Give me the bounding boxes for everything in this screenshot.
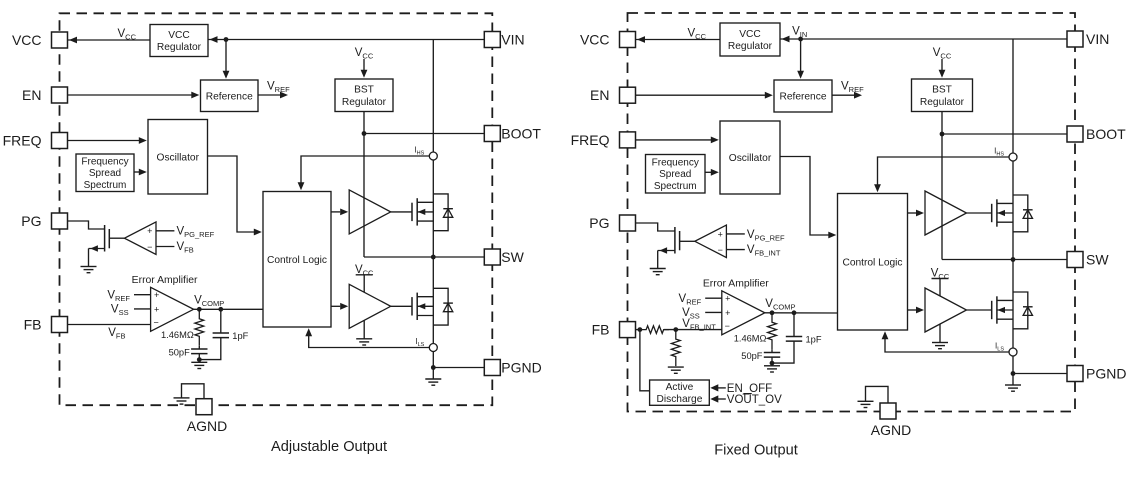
- svg-text:Spread: Spread: [659, 169, 691, 180]
- svg-text:+: +: [147, 226, 152, 236]
- wire FB junction down to Active Discharge: [640, 330, 650, 391]
- wire ILS sense into Control Logic bottom: [885, 339, 1009, 352]
- pin PGND: [1067, 366, 1083, 382]
- PG MOSFET channel bar: [104, 225, 106, 252]
- wire EN pin to Reference: [636, 94, 766, 96]
- transistor high-side MOSFET body connection with arrow: [417, 211, 433, 213]
- svg-text:1.46MΩ: 1.46MΩ: [161, 330, 194, 340]
- wire Frequency Spread Spectrum into Oscillator: [134, 171, 139, 173]
- svg-text:Oscillator: Oscillator: [157, 152, 200, 163]
- transistor low-side MOSFET channel bar: [416, 293, 418, 320]
- wire PGND node to power ground: [1012, 374, 1014, 386]
- wire ILS sense into Control Logic bottom: [309, 336, 429, 348]
- pin PG: [620, 215, 636, 231]
- svg-text:Discharge: Discharge: [657, 394, 703, 405]
- svg-text:PGND: PGND: [1086, 366, 1126, 382]
- wire divider midpoint to error amplifier inverting input: [664, 329, 722, 331]
- ground below PG MOSFET: [81, 266, 97, 268]
- wire low-side MOSFET source down to PGND node: [1012, 260, 1014, 374]
- IC boundary dashed border: [60, 13, 493, 405]
- IC boundary dashed border: [628, 13, 1076, 412]
- svg-text:PG: PG: [21, 213, 41, 229]
- svg-text:VCC: VCC: [580, 32, 610, 48]
- PG MOSFET source stub with arrow: [89, 248, 105, 250]
- transistor high-side MOSFET drain stub: [997, 202, 1013, 204]
- low-side gate driver: [349, 284, 391, 328]
- current sense IHS tap circle: [429, 152, 437, 160]
- junction node VIN branch to Reference: [798, 37, 803, 42]
- transistor low-side MOSFET source stub: [417, 315, 433, 317]
- svg-text:Error Amplifier: Error Amplifier: [132, 275, 198, 286]
- pin FREQ: [620, 132, 636, 148]
- pin SW: [484, 249, 500, 265]
- pin EN: [52, 87, 68, 103]
- pin EN: [620, 87, 636, 103]
- error amplifier VSS input wire: [705, 311, 722, 313]
- capacitor 1pF branch: [793, 313, 795, 337]
- wire FB pin to divider: [636, 329, 641, 331]
- svg-text:−: −: [718, 245, 723, 255]
- junction node VCOMP at compensation resistor: [197, 307, 202, 312]
- svg-text:1pF: 1pF: [232, 331, 248, 341]
- svg-text:−: −: [725, 321, 730, 331]
- feedback divider bottom resistor R2: [671, 330, 680, 367]
- svg-text:Oscillator: Oscillator: [729, 153, 772, 164]
- wire VIN rail down to high-side MOSFET drain: [432, 40, 434, 258]
- pin BOOT: [1067, 126, 1083, 142]
- body diode of low-side MOSFET: [1013, 292, 1028, 329]
- transistor high-side MOSFET source stub: [997, 221, 1013, 223]
- capacitor 1pF branch: [220, 309, 222, 333]
- wire AGND pin to analog ground symbol: [182, 384, 205, 399]
- body diode of high-side MOSFET: [433, 194, 448, 231]
- svg-text:AGND: AGND: [871, 422, 911, 438]
- wire Oscillator output to Control Logic: [208, 156, 255, 232]
- svg-text:FREQ: FREQ: [3, 133, 42, 149]
- junction node FB to active discharge: [638, 327, 643, 332]
- svg-text:Spread: Spread: [89, 168, 121, 179]
- wire VCC into BST Regulator: [363, 59, 365, 70]
- pin AGND: [196, 399, 212, 415]
- pin VCC: [52, 32, 68, 48]
- wire low-side driver to gate: [967, 309, 992, 311]
- wire to BOOT pin: [942, 133, 1067, 135]
- transistor high-side MOSFET channel bar: [416, 198, 418, 225]
- svg-text:Spectrum: Spectrum: [654, 181, 697, 192]
- high-side gate driver: [349, 190, 391, 234]
- svg-text:+: +: [725, 308, 730, 318]
- svg-text:Active: Active: [666, 382, 694, 393]
- power ground symbol: [1005, 384, 1021, 386]
- PG comparator: [695, 225, 727, 257]
- PG comparator plus input wire: [156, 230, 174, 232]
- svg-text:VCC: VCC: [168, 30, 190, 41]
- wire BST Regulator output down to SW node: [941, 112, 943, 260]
- wire VIN to VCC Regulator input: [208, 39, 484, 41]
- wire to PGND pin: [433, 367, 484, 369]
- junction node VCOMP at compensation resistor: [770, 310, 775, 315]
- svg-text:AGND: AGND: [187, 418, 227, 434]
- svg-text:Regulator: Regulator: [157, 42, 202, 53]
- svg-text:SW: SW: [1086, 252, 1109, 268]
- wire IHS sense into Control Logic top: [301, 156, 429, 183]
- transistor high-side MOSFET body connection with arrow: [997, 212, 1013, 214]
- svg-text:BOOT: BOOT: [1086, 126, 1126, 142]
- wire 50pF to ground: [198, 354, 200, 363]
- svg-text:FB: FB: [592, 322, 610, 338]
- transistor high-side MOSFET channel bar: [996, 199, 998, 226]
- error amplifier U1: [151, 287, 194, 331]
- transistor low-side MOSFET drain stub: [997, 299, 1013, 301]
- ground below low-side driver: [356, 338, 372, 340]
- junction node VCOMP at 1pF capacitor: [792, 310, 797, 315]
- svg-text:PGND: PGND: [501, 360, 541, 376]
- pin BOOT: [484, 126, 500, 142]
- svg-text:VIN: VIN: [501, 32, 524, 48]
- junction node PGND: [431, 365, 436, 370]
- wire VIN to VCC Regulator input: [780, 38, 1067, 40]
- svg-text:SW: SW: [501, 249, 524, 265]
- svg-text:Spectrum: Spectrum: [84, 180, 127, 191]
- pin VCC: [620, 32, 636, 48]
- svg-text:1.46MΩ: 1.46MΩ: [734, 333, 767, 343]
- wire FREQ pin into Oscillator: [68, 140, 140, 142]
- wire VCC into BST Regulator: [941, 59, 943, 70]
- wire FREQ pin into Oscillator: [636, 139, 712, 141]
- svg-text:−: −: [153, 318, 158, 328]
- wire Control Logic to high-side driver: [331, 211, 340, 213]
- wire low-side MOSFET source down to PGND node: [432, 257, 434, 368]
- svg-text:BST: BST: [932, 85, 952, 96]
- PG MOSFET gate bar: [679, 231, 681, 250]
- wire Reference output VREF arrow: [258, 94, 280, 96]
- block Reference: [774, 80, 832, 112]
- pin SW: [1067, 252, 1083, 268]
- block Control Logic: [263, 192, 331, 328]
- low-side gate driver: [925, 288, 967, 332]
- wire Frequency Spread Spectrum into Oscillator: [705, 171, 711, 173]
- ground below divider: [668, 366, 684, 368]
- svg-text:1pF: 1pF: [806, 335, 822, 345]
- low-side driver ground stub: [363, 320, 365, 339]
- wire low-side driver to gate: [391, 305, 412, 307]
- wire PGND node to power ground: [432, 368, 434, 380]
- block Oscillator: [720, 121, 780, 194]
- PG MOSFET gate bar: [108, 229, 110, 248]
- error amplifier VREF input wire: [705, 297, 722, 299]
- transistor high-side MOSFET gate bar: [411, 203, 413, 221]
- wire Control Logic to low-side driver: [908, 309, 917, 311]
- wire Control Logic to low-side driver: [331, 305, 340, 307]
- wire BST Regulator output down to SW node: [363, 112, 365, 258]
- transistor high-side MOSFET drain stub: [417, 201, 433, 203]
- svg-text:Frequency: Frequency: [652, 157, 699, 168]
- wire Reference output VREF arrow: [832, 94, 854, 96]
- block BST Regulator: [912, 79, 973, 112]
- power ground symbol: [425, 378, 441, 380]
- junction node VCOMP at 1pF capacitor: [218, 307, 223, 312]
- block VCC Regulator: [720, 23, 780, 56]
- junction node BOOT branch: [940, 132, 945, 137]
- current sense ILS tap circle: [429, 344, 437, 352]
- error amplifier U1: [722, 291, 765, 335]
- svg-text:FB: FB: [24, 317, 42, 333]
- wire error amplifier output VCOMP to Control Logic: [765, 312, 838, 314]
- wire to BOOT pin: [364, 133, 484, 135]
- svg-text:+: +: [154, 304, 159, 314]
- low-side driver VCC supply bar: [932, 278, 949, 280]
- svg-text:VIN: VIN: [1086, 31, 1109, 47]
- wire VCC regulator output to VCC pin: [68, 39, 151, 41]
- svg-text:Reference: Reference: [206, 91, 253, 102]
- error amplifier VSS input wire: [134, 308, 151, 310]
- compensation capacitor 50pF: [771, 349, 773, 352]
- wire EN pin to Reference: [68, 94, 192, 96]
- transistor high-side MOSFET source stub: [417, 220, 433, 222]
- pin VIN: [1067, 31, 1083, 47]
- wire PG MOSFET source to ground: [88, 249, 90, 267]
- wire Oscillator output to Control Logic: [780, 157, 829, 236]
- wire SW node to SW pin: [942, 259, 1067, 261]
- pin VIN: [484, 32, 500, 48]
- wire VIN branch down into Reference: [800, 39, 802, 71]
- block Control Logic: [838, 194, 908, 331]
- low-side driver ground stub: [939, 324, 941, 343]
- svg-text:VOUT_OV: VOUT_OV: [727, 394, 782, 406]
- junction node BOOT branch: [362, 131, 367, 136]
- block VCC Regulator: [150, 25, 208, 57]
- transistor low-side MOSFET channel bar: [996, 296, 998, 323]
- analog ground symbol: [858, 400, 874, 402]
- ground below PG MOSFET: [650, 268, 666, 270]
- wire PG comparator output to PG MOSFET gate: [109, 237, 124, 239]
- wire 1pF bottom to compensation ground node: [199, 338, 221, 360]
- transistor low-side MOSFET source stub: [997, 318, 1013, 320]
- svg-text:Frequency: Frequency: [81, 156, 128, 167]
- svg-text:−: −: [147, 242, 152, 252]
- ground below compensation network: [764, 365, 780, 367]
- block Oscillator: [148, 120, 208, 195]
- junction node SW: [1011, 257, 1016, 262]
- pin AGND: [880, 403, 896, 419]
- wire AGND pin to analog ground symbol: [866, 386, 889, 403]
- svg-text:Adjustable Output: Adjustable Output: [271, 439, 387, 455]
- wire to PGND pin: [1013, 373, 1067, 375]
- high-side gate driver: [925, 191, 967, 235]
- pin PGND: [484, 360, 500, 376]
- transistor low-side MOSFET gate bar: [991, 301, 993, 319]
- transistor low-side MOSFET drain stub: [417, 296, 433, 298]
- compensation resistor 1.46Mohm: [768, 313, 777, 350]
- PG MOSFET channel bar: [674, 227, 676, 254]
- svg-text:BST: BST: [354, 85, 374, 96]
- low-side driver VCC supply bar: [356, 274, 373, 276]
- wire high-side driver to gate: [967, 212, 992, 214]
- compensation capacitor 50pF: [198, 346, 200, 349]
- PG MOSFET source stub with arrow: [658, 250, 675, 252]
- svg-text:+: +: [718, 229, 723, 239]
- current sense ILS tap circle: [1009, 348, 1017, 356]
- svg-text:VCC: VCC: [12, 32, 42, 48]
- wire SW node to SW pin: [364, 256, 484, 258]
- signal EN_OFF into Active Discharge: [716, 387, 726, 389]
- wire PG comparator output to PG MOSFET gate: [680, 240, 695, 242]
- svg-text:50pF: 50pF: [741, 351, 763, 361]
- junction node VIN branch to Reference: [224, 37, 229, 42]
- ground below compensation network: [191, 361, 207, 363]
- junction node PGND: [1011, 371, 1016, 376]
- pin FB: [52, 317, 68, 333]
- block Active Discharge: [650, 380, 710, 405]
- block BST Regulator: [335, 79, 393, 112]
- body diode of low-side MOSFET: [433, 288, 448, 325]
- current sense IHS tap circle: [1009, 153, 1017, 161]
- PG comparator minus input wire: [726, 249, 744, 251]
- svg-text:Regulator: Regulator: [920, 97, 965, 108]
- svg-text:EN: EN: [590, 87, 609, 103]
- svg-text:EN: EN: [22, 87, 41, 103]
- svg-text:Regulator: Regulator: [728, 41, 773, 52]
- wire PG pin to PG MOSFET drain: [636, 223, 675, 231]
- svg-text:+: +: [154, 290, 159, 300]
- block Frequency Spread Spectrum: [646, 155, 706, 194]
- svg-text:Regulator: Regulator: [342, 97, 387, 108]
- wire VIN rail down to high-side MOSFET drain: [1012, 39, 1014, 260]
- feedback divider top resistor R1: [641, 326, 669, 334]
- wire VIN branch down into Reference: [225, 40, 227, 72]
- block Frequency Spread Spectrum: [76, 154, 134, 192]
- svg-text:50pF: 50pF: [169, 347, 191, 357]
- body diode of high-side MOSFET: [1013, 195, 1028, 232]
- svg-text:VCC: VCC: [739, 29, 761, 40]
- pin FREQ: [52, 133, 68, 149]
- wire PG MOSFET source to ground: [657, 251, 659, 269]
- junction node compensation ground ties: [197, 357, 202, 362]
- error amplifier VREF input wire: [134, 294, 151, 296]
- junction node compensation ground ties: [770, 361, 775, 366]
- svg-text:PG: PG: [589, 215, 609, 231]
- svg-text:Control Logic: Control Logic: [267, 255, 327, 266]
- svg-text:Fixed Output: Fixed Output: [714, 443, 798, 459]
- svg-text:FREQ: FREQ: [571, 132, 610, 148]
- wire error amplifier output VCOMP to Control Logic: [194, 308, 263, 310]
- wire high-side driver to gate: [391, 211, 412, 213]
- wire IHS sense into Control Logic top: [878, 157, 1009, 185]
- wire Control Logic to high-side driver: [908, 212, 917, 214]
- transistor low-side MOSFET gate bar: [411, 297, 413, 315]
- wire PG pin to PG MOSFET drain: [68, 221, 105, 229]
- PG comparator minus input wire: [156, 246, 174, 248]
- wire 50pF to ground: [771, 357, 773, 366]
- ground below low-side driver: [932, 342, 948, 344]
- svg-text:Error Amplifier: Error Amplifier: [703, 278, 769, 289]
- block Reference: [201, 80, 259, 112]
- transistor high-side MOSFET gate bar: [991, 204, 993, 222]
- pin FB: [620, 322, 636, 338]
- wire VCC regulator output to VCC pin: [636, 39, 721, 41]
- junction node divider midpoint: [673, 327, 678, 332]
- signal VOUT_OV into Active Discharge: [716, 398, 726, 400]
- analog ground symbol: [174, 397, 190, 399]
- wire 1pF bottom to compensation ground node: [772, 341, 794, 363]
- PG comparator plus input wire: [726, 233, 744, 235]
- wire FB pin to error amplifier inverting input: [68, 324, 151, 326]
- PG comparator: [124, 222, 156, 255]
- svg-text:Control Logic: Control Logic: [842, 257, 902, 268]
- svg-text:Reference: Reference: [779, 92, 826, 103]
- transistor low-side MOSFET body connection with arrow: [417, 305, 433, 307]
- svg-text:BOOT: BOOT: [501, 126, 541, 142]
- transistor low-side MOSFET body connection with arrow: [997, 309, 1013, 311]
- pin PG: [52, 213, 68, 229]
- svg-text:+: +: [725, 294, 730, 304]
- junction node SW: [431, 255, 436, 260]
- compensation resistor 1.46Mohm: [195, 309, 204, 346]
